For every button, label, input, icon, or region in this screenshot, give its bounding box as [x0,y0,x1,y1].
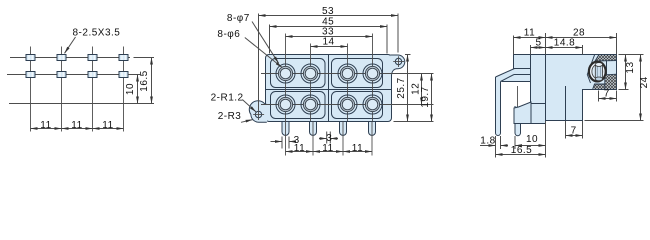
dim 7 barrel [598,91,600,102]
barrel inner edge [606,61,608,75]
leader to pad [65,37,76,53]
jack r2c1 [276,95,295,114]
svg-text:7: 7 [571,126,577,137]
pad row1 col2 [57,55,66,61]
svg-text:11: 11 [40,120,51,131]
dim 7 bottom [565,121,567,139]
knurl bottom right block [605,74,617,89]
column centerline 4 [372,34,374,122]
pad row1 col1 [26,55,35,61]
column centerline 1 [285,34,287,156]
bracket arm diagonal [496,69,515,78]
svg-text:8-2.5X3.5: 8-2.5X3.5 [73,28,121,39]
jack r1c3 [338,64,357,83]
dim 53 [258,14,260,111]
column line 1 [30,47,32,132]
svg-text:10: 10 [125,83,136,95]
dim 24 [585,120,644,122]
knurl top band [595,55,617,62]
svg-text:25.7: 25.7 [396,77,407,98]
column line 2 [61,47,63,132]
socket inner ellipse [592,65,603,79]
leg 2 hidden centerline [517,86,519,107]
seam 1 [545,55,547,121]
body silhouette [531,55,617,124]
pad row1 col3 [88,55,97,61]
knurl bottom small band [593,84,605,90]
pad row1 col4 [119,55,128,61]
leg 1 [496,77,501,136]
dim 10 [514,136,516,149]
left ear [249,101,267,122]
svg-text:2-R1.2: 2-R1.2 [211,93,244,104]
jack r2c3 [338,95,357,114]
svg-text:8-φ7: 8-φ7 [227,13,250,24]
dim 12 [421,74,423,105]
pad row2 col1 [26,72,35,78]
bezel top-right [332,59,383,88]
jack r2c2 [301,95,320,114]
dim 25.7 [405,54,411,56]
dim 28 top [616,33,618,55]
column line 4 [123,47,125,132]
pin 2 [310,122,317,136]
pad row2 col4 [119,72,128,78]
svg-text:14: 14 [322,36,334,47]
dim 13 [619,54,644,56]
jack r2c4 [363,95,382,114]
pin 1 [282,122,289,136]
dim 11 chain [31,128,62,130]
jack r1c2 [301,64,320,83]
dim 3 left (pin width) [281,137,283,149]
bracket arm inner diagonal [501,75,515,82]
right ear hole [395,58,401,64]
svg-text:10: 10 [526,134,538,145]
svg-text:24: 24 [639,76,650,88]
column centerline 3 [347,44,349,122]
pin centerline 3 [342,122,344,156]
seam horizontal [266,89,392,91]
flange right edge [530,55,532,104]
pin 3 [340,122,347,136]
jack r1c1 [276,64,295,83]
svg-text:8-φ6: 8-φ6 [217,29,240,40]
jack r1c4 [363,64,382,83]
svg-text:2-R3: 2-R3 [218,111,242,122]
dim 45 [269,25,271,54]
svg-text:16.5: 16.5 [511,145,532,156]
pad row2 col3 [88,72,97,78]
left ear hole [255,111,261,117]
pin centerline 2 [312,122,314,156]
dim 16.5 [496,154,546,156]
barrel taper edge [587,55,594,84]
svg-text:1.8: 1.8 [480,135,495,146]
svg-text:11: 11 [294,143,305,154]
pin 4 [369,122,376,136]
svg-text:7: 7 [604,89,610,100]
bracket arm fill [496,69,515,82]
svg-text:13: 13 [625,61,636,73]
svg-text:11: 11 [524,27,535,38]
body [266,55,392,122]
seam vertical [328,55,330,122]
flange column [514,55,531,82]
row line 1 [10,57,130,59]
dim 1.8 [495,136,497,158]
dim 5 [530,45,532,55]
ledge line right of foot [531,103,546,105]
row centerline 1 [261,73,434,75]
column centerline 2 [310,44,312,122]
row line 2 [7,74,130,76]
bezel top-left [271,59,326,88]
dim 3 middle (bezel gap) [326,132,328,144]
right ear [390,55,405,74]
socket outer ellipse [589,62,606,82]
dim 33 [286,36,373,38]
row centerline 2 [261,104,434,106]
dim 11 top [513,36,515,55]
flange lines [514,68,531,70]
bezel bottom-right [332,92,383,119]
foot block [514,102,531,124]
svg-text:14.8: 14.8 [554,38,575,49]
dim 14.8 [582,45,584,55]
bottom line [9,103,154,105]
leg 2 lower part [515,106,521,136]
svg-text:11: 11 [71,120,82,131]
svg-text:11: 11 [102,120,113,131]
dim 11 bottom chain [286,151,314,153]
dim 19.7 [431,74,433,122]
bezel bottom-left [271,92,326,119]
seam 2 [565,86,567,121]
center pin [595,65,602,79]
column line 3 [92,47,94,132]
pin centerline 4 [371,122,373,156]
svg-text:11: 11 [322,143,333,154]
svg-text:19.7: 19.7 [420,86,431,107]
dim 16.5 [134,57,155,59]
dim 14 [311,46,348,48]
svg-text:53: 53 [322,6,334,17]
dim 10 [128,74,141,76]
svg-text:16.5: 16.5 [139,70,150,91]
svg-text:5: 5 [535,38,541,49]
svg-text:11: 11 [352,143,363,154]
pad row2 col2 [57,72,66,78]
